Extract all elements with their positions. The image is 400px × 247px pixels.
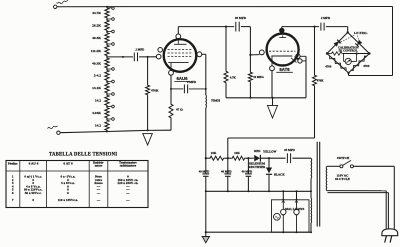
svg-text:10 MEG: 10 MEG: [253, 75, 264, 79]
svg-text:SWITCH: SWITCH: [337, 156, 350, 160]
svg-text:—: —: [125, 198, 130, 202]
svg-text:4.04K: 4.04K: [92, 111, 101, 115]
svg-text:05 MFD: 05 MFD: [284, 148, 295, 152]
svg-text:110 a 135Vc.a.: 110 a 135Vc.a.: [58, 198, 78, 202]
svg-text:TABELLA DELLE TENSIONI: TABELLA DELLE TENSIONI: [49, 152, 117, 157]
svg-text:1-N XTAL: 1-N XTAL: [354, 31, 368, 35]
svg-text:6 AT 6: 6 AT 6: [63, 162, 73, 166]
svg-text:4700: 4700: [363, 64, 370, 68]
svg-text:—: —: [96, 191, 101, 195]
svg-text:40 MFD: 40 MFD: [199, 170, 210, 174]
svg-text:40.3K: 40.3K: [92, 36, 101, 40]
svg-text:40 MFD: 40 MFD: [242, 170, 253, 174]
svg-text:raddrizzatore: raddrizzatore: [120, 165, 137, 168]
svg-text:470K: 470K: [317, 78, 325, 82]
svg-text:6AT6: 6AT6: [279, 67, 290, 72]
svg-text:4.7K: 4.7K: [230, 76, 237, 80]
svg-text:2-4.2: 2-4.2: [94, 74, 102, 78]
svg-text:75MH: 75MH: [211, 99, 220, 103]
svg-text:14.1K: 14.1K: [92, 86, 101, 90]
svg-text:zatore: zatore: [95, 165, 103, 168]
svg-text:.1 MFD: .1 MFD: [135, 48, 144, 52]
svg-text:4700: 4700: [325, 64, 332, 68]
svg-text:DIAL LIGHTS: DIAL LIGHTS: [285, 207, 305, 211]
svg-text:14.2: 14.2: [95, 99, 101, 103]
svg-text:—: —: [96, 198, 101, 202]
svg-text:6 AU 6: 6 AU 6: [29, 162, 39, 166]
svg-text:—: —: [125, 191, 130, 195]
svg-text:10K: 10K: [234, 151, 240, 155]
svg-text:60 CYCLE: 60 CYCLE: [335, 177, 350, 181]
svg-text:05 MFD: 05 MFD: [235, 16, 247, 20]
svg-text:40.3K: 40.3K: [92, 61, 101, 65]
svg-text:10K: 10K: [211, 151, 217, 155]
svg-text:26.2K: 26.2K: [92, 24, 101, 28]
svg-text:BLACK: BLACK: [274, 173, 285, 177]
svg-text:470K: 470K: [151, 89, 159, 93]
svg-text:111.2K: 111.2K: [91, 49, 101, 53]
svg-text:40 MFD: 40 MFD: [221, 170, 232, 174]
svg-text:47 Ω: 47 Ω: [176, 108, 183, 112]
svg-text:14.2: 14.2: [95, 124, 101, 128]
svg-text:44.7K: 44.7K: [92, 11, 101, 15]
svg-text:RECTIFIER: RECTIFIER: [249, 165, 267, 169]
svg-text:YELLOW: YELLOW: [263, 150, 277, 154]
svg-text:2 MFD: 2 MFD: [321, 16, 331, 20]
svg-text:30 a 50Vc.c.: 30 a 50Vc.c.: [25, 191, 42, 195]
svg-text:2 MFD: 2 MFD: [187, 80, 197, 84]
svg-text:Piedino: Piedino: [8, 162, 18, 166]
svg-text:5K CONTROL: 5K CONTROL: [339, 49, 358, 53]
svg-text:RED: RED: [254, 149, 261, 153]
